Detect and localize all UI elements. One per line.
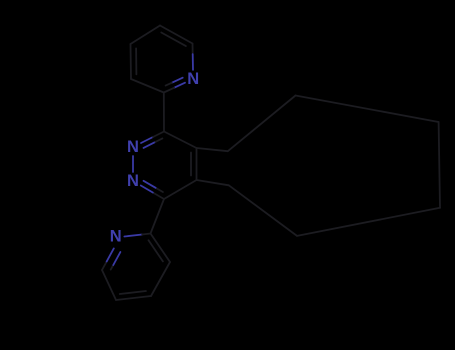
bond C5p=C6p — [160, 26, 193, 44]
bond N1-N2 — [132, 156, 134, 172]
bond C6q=Nq — [102, 261, 107, 270]
bond C2q=C3q — [151, 234, 171, 263]
bond C6p-Np — [192, 44, 194, 55]
svg-text:N: N — [127, 172, 139, 190]
bond C5q-C6q — [102, 270, 116, 300]
bond C4-H1 fused ring — [197, 148, 228, 151]
bond H4-H5 — [297, 208, 440, 236]
bond C4=C5 — [196, 148, 198, 180]
bond N1=C3 — [141, 137, 153, 143]
svg-text:N: N — [110, 227, 122, 245]
bond C4q=C5q — [116, 296, 151, 300]
bond H2-H3 — [296, 96, 439, 123]
svg-text:N: N — [127, 138, 139, 156]
bond H3-H4 — [439, 122, 440, 208]
bond C2p-C3p — [131, 79, 164, 93]
bond H5-H6 — [229, 185, 297, 236]
bond Nq-C2q — [124, 235, 142, 237]
bond C5-C6 — [164, 180, 197, 199]
bond C4p-C5p — [131, 26, 161, 45]
bond C3-C2p link to top pyridine — [163, 93, 165, 132]
bond C3p=C4p — [130, 44, 133, 79]
svg-text:N: N — [187, 70, 199, 88]
bond C3-C4 — [164, 132, 197, 149]
bond Np=C2p — [174, 83, 185, 88]
bond C6-C2q link to bottom pyridine — [151, 199, 165, 234]
bond C5-H6 fused ring — [197, 180, 229, 185]
bond C3q-C4q — [151, 262, 170, 296]
bond H1-H2 — [228, 96, 296, 152]
bond C6=N2 — [153, 193, 164, 200]
